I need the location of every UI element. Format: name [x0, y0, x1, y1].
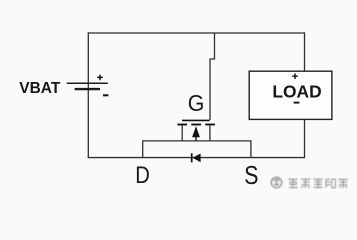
watermark text blocks (硬件笔记本)	[288, 179, 348, 188]
wire bottom rail	[88, 157, 305, 159]
svg-text:VBAT: VBAT	[19, 80, 61, 97]
LOAD box	[249, 71, 332, 119]
wire top rail	[88, 32, 305, 34]
svg-text:LOAD: LOAD	[272, 81, 321, 101]
transistor Q1 gate bar	[182, 119, 210, 121]
battery VBAT negative plate	[75, 88, 100, 90]
body diode triangle	[193, 154, 201, 163]
svg-text:G: G	[188, 90, 205, 116]
transistor Q1 channel segment drain	[177, 124, 187, 126]
wire left rail	[87, 32, 89, 157]
LOAD plus sign	[292, 73, 298, 79]
transistor Q1 channel segment source	[205, 124, 215, 126]
wire gate tap from top rail with jog	[210, 33, 215, 120]
battery plus sign	[97, 75, 103, 81]
battery minus sign	[103, 94, 108, 96]
body diode cathode bar	[191, 153, 193, 162]
wire right rail upper	[304, 32, 306, 71]
battery VBAT positive plate	[67, 82, 108, 84]
transistor Q1 source stub	[209, 125, 211, 142]
transistor Q1 channel segment body	[191, 124, 201, 126]
transistor Q1 body arrow shaft	[195, 128, 197, 141]
transistor Q1 body arrow head	[192, 126, 200, 137]
watermark logo icon	[271, 177, 282, 188]
wire right rail lower	[304, 119, 306, 157]
wire channel connection line D to S	[143, 141, 251, 158]
LOAD minus sign	[294, 102, 300, 104]
transistor Q1 drain stub	[181, 125, 183, 142]
svg-text:S: S	[244, 162, 258, 190]
svg-text:D: D	[135, 162, 150, 189]
